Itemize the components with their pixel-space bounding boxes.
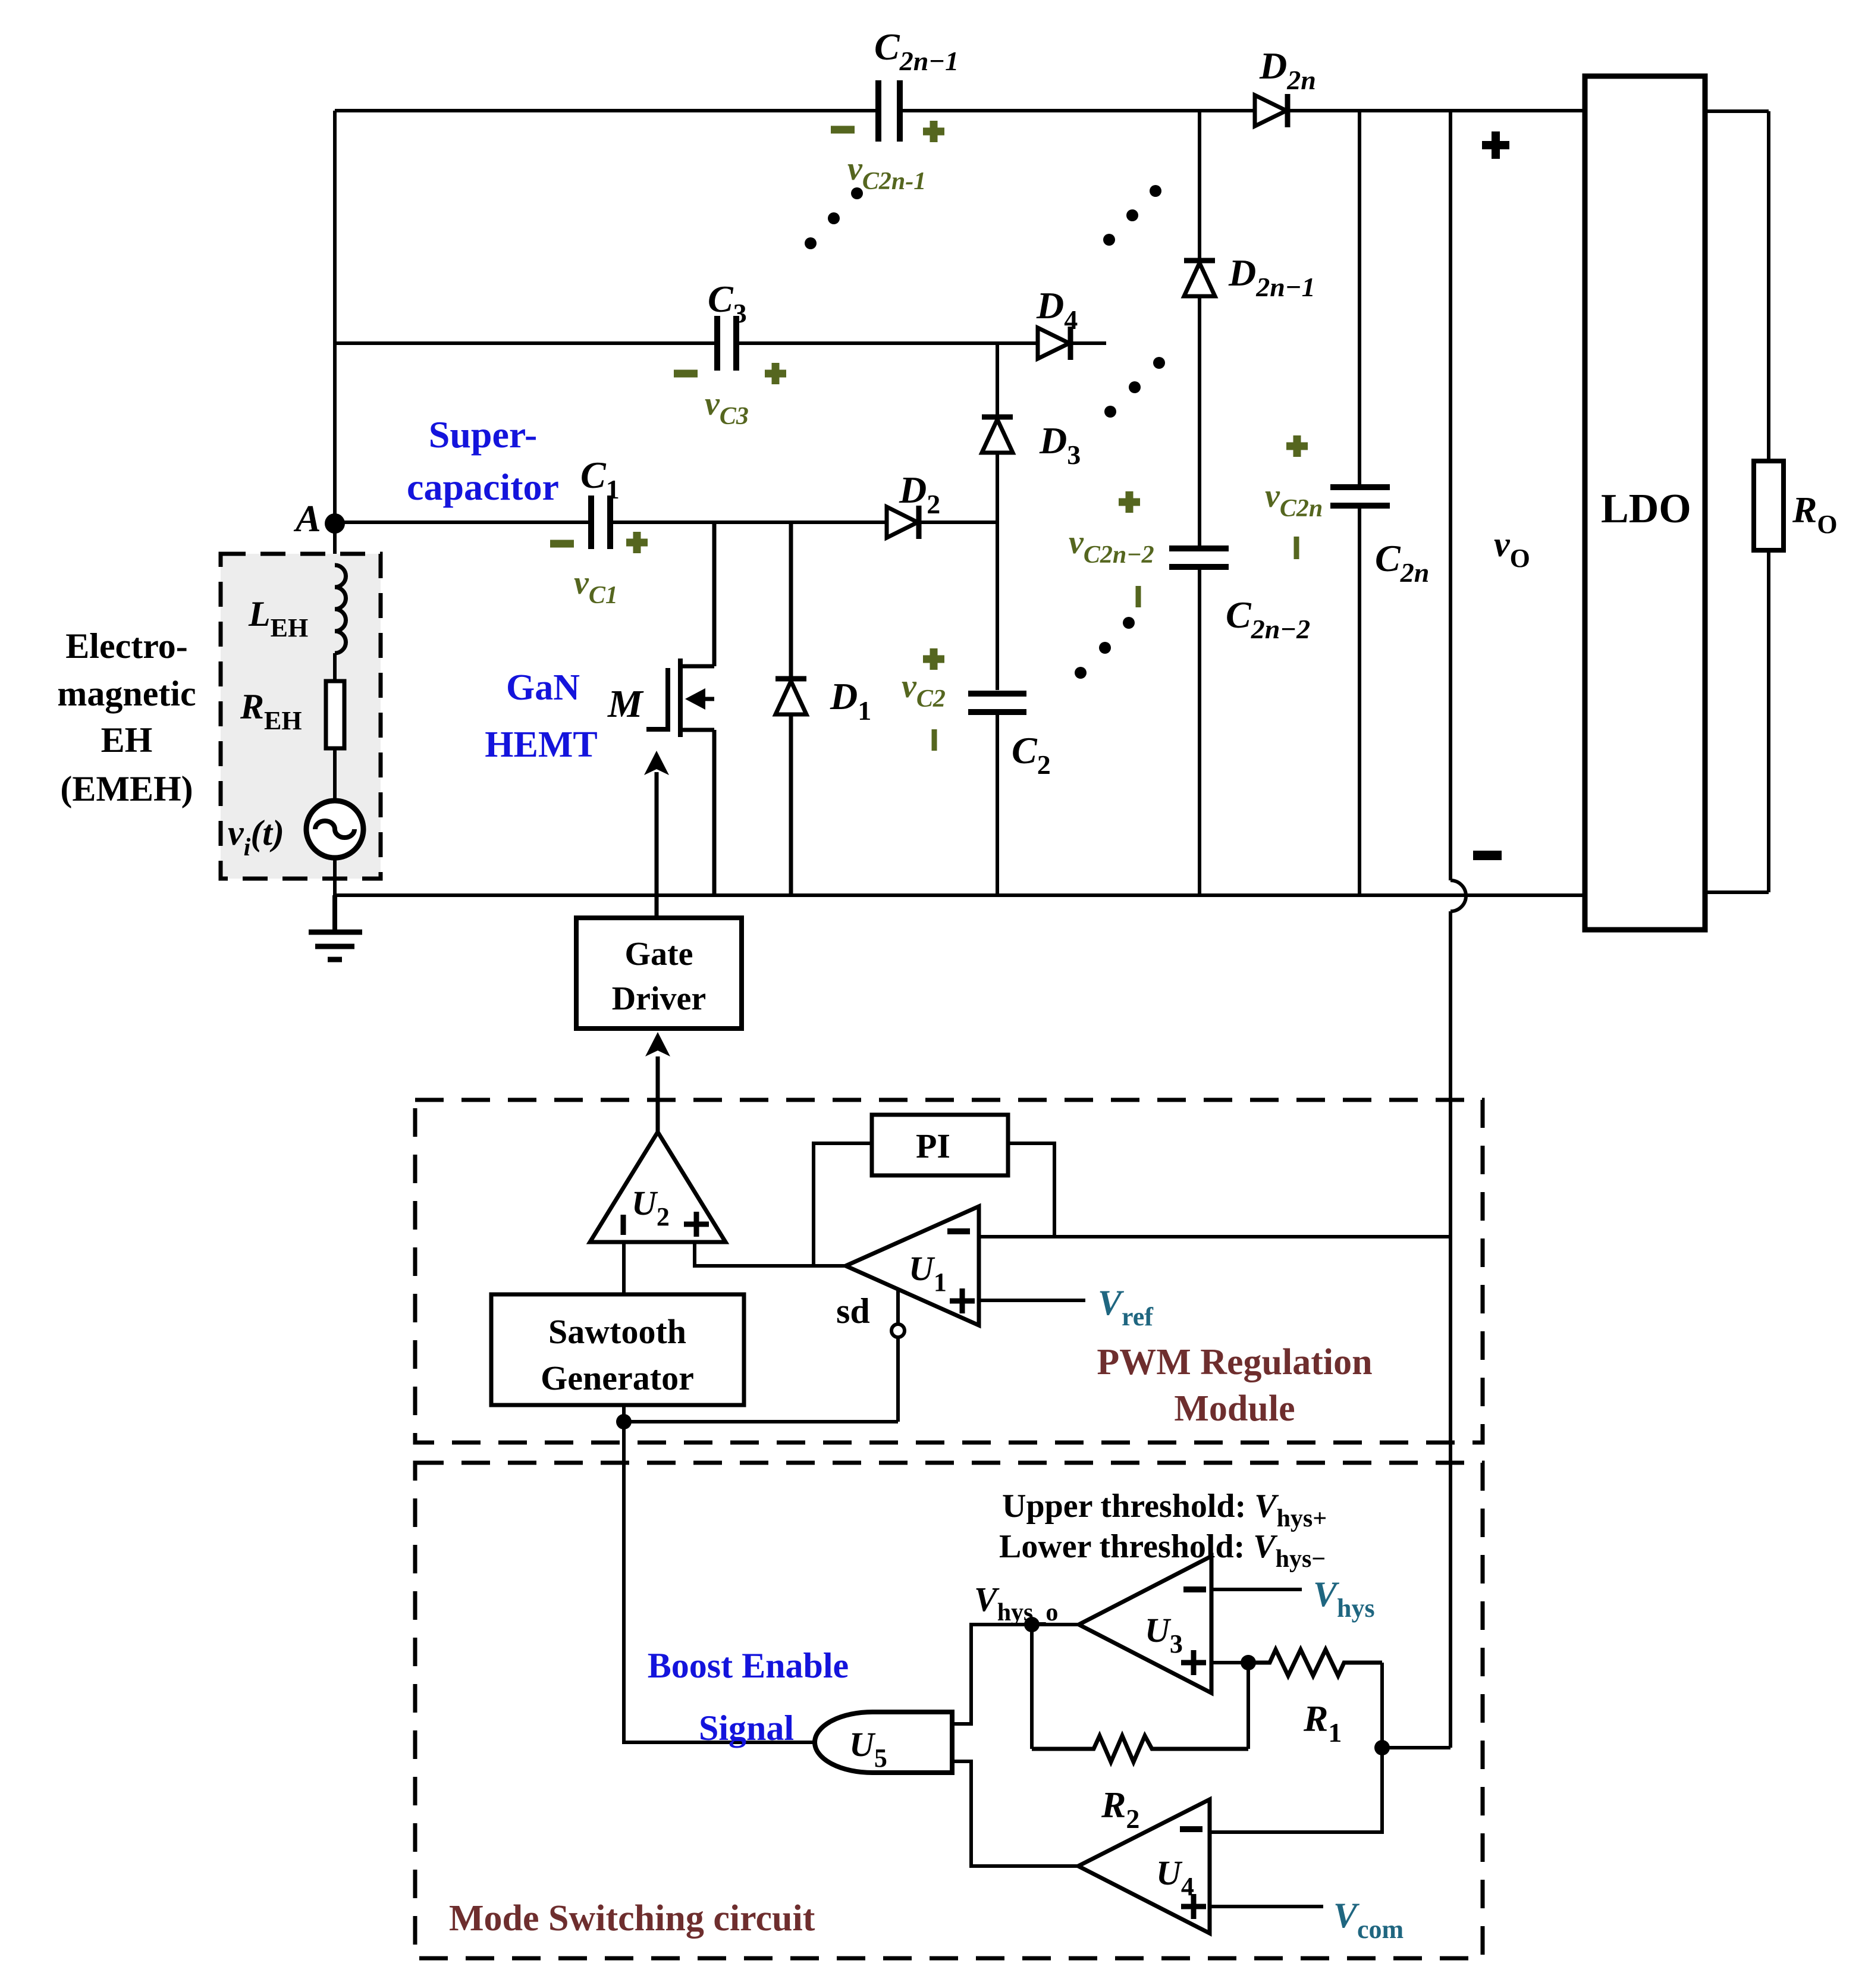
wire after D4	[1072, 341, 1106, 345]
capacitor C3	[717, 316, 736, 371]
label vO plus	[1482, 131, 1509, 159]
ellipsis dots group 2	[1103, 185, 1161, 246]
node U3 plus junction	[1241, 1655, 1256, 1670]
Mode Switching dashed box	[415, 1463, 1483, 1958]
wire R1 node down to U4	[1210, 1748, 1382, 1832]
svg-text:Gate: Gate	[624, 936, 693, 973]
wire C1 row right	[610, 520, 887, 524]
wire column D3-C2	[996, 343, 999, 415]
op-amp U3	[1079, 1556, 1211, 1693]
Sawtooth Generator box	[491, 1294, 744, 1405]
wire U5 lower input stub	[952, 1761, 1078, 1866]
wire U3 plus input	[1211, 1661, 1248, 1664]
wire U3 output to U5	[952, 1625, 1079, 1724]
wire U2 minus input	[622, 1242, 626, 1294]
wire sawtooth bottom junction	[622, 1405, 626, 1422]
diode D2	[887, 506, 919, 539]
svg-text:Super-: Super-	[429, 413, 538, 456]
label C2n-2	[1069, 491, 1310, 644]
wire Vhys_o down to R2	[1030, 1625, 1034, 1749]
resistor R1	[1248, 1650, 1382, 1676]
svg-text:Driver: Driver	[612, 980, 707, 1017]
wire top rail right	[1288, 109, 1585, 112]
diode D2n	[1255, 94, 1288, 127]
LDO U-block	[1585, 76, 1705, 930]
label C2n	[1265, 435, 1429, 588]
wire C3 row left	[335, 341, 717, 345]
label PWM Regulation Module	[1097, 1342, 1372, 1429]
label Electro-magnetic EH (EMEH)	[57, 626, 196, 808]
label vO minus	[1473, 851, 1502, 860]
wire R1 corner down	[1380, 1663, 1384, 1748]
svg-text:M: M	[607, 682, 644, 726]
wire R2 right up to plus node	[1247, 1663, 1250, 1749]
wire Ro column	[1767, 111, 1770, 461]
label C1	[550, 454, 648, 609]
svg-text:EH: EH	[101, 720, 153, 760]
svg-text:(EMEH): (EMEH)	[60, 769, 193, 808]
ground	[309, 895, 362, 959]
diode D3	[982, 417, 1013, 453]
wire U4 plus input	[1210, 1905, 1323, 1908]
resistor REH	[326, 681, 344, 748]
svg-text:GaN: GaN	[506, 667, 580, 708]
wire boost enable vertical	[624, 1422, 815, 1742]
op-amp U2	[590, 1132, 726, 1242]
wire C1 row left	[335, 520, 591, 524]
svg-text:PWM Regulation: PWM Regulation	[1097, 1342, 1372, 1382]
resistor R2	[1032, 1736, 1248, 1762]
PWM Regulation Module dashed box	[415, 1100, 1483, 1443]
AND gate U5	[815, 1712, 952, 1773]
wire U3 minus input	[1211, 1588, 1302, 1591]
label GaN HEMT	[485, 667, 597, 765]
label Super-capacitor	[407, 413, 559, 508]
svg-text:PI: PI	[916, 1127, 950, 1165]
svg-text:magnetic: magnetic	[57, 674, 196, 713]
wire LDO right top	[1705, 109, 1769, 113]
arrow U2 to Gate Driver	[656, 1056, 660, 1132]
node A	[325, 513, 345, 534]
wire PI input tap	[814, 1143, 872, 1266]
svg-text:Module: Module	[1174, 1388, 1295, 1429]
EMEH dashed box	[221, 554, 381, 879]
wire U1 plus input	[979, 1299, 1085, 1302]
label C2n-1	[831, 26, 959, 195]
op-amp U1	[846, 1206, 979, 1325]
capacitor C2n	[1330, 487, 1390, 506]
wire LDO right bottom	[1705, 890, 1769, 894]
svg-text:Signal: Signal	[699, 1708, 794, 1748]
ellipsis dots group 4	[1075, 617, 1135, 679]
svg-text:Mode Switching circuit: Mode Switching circuit	[449, 1898, 815, 1939]
polarity signs vC3	[674, 363, 786, 384]
ellipsis dots group 1	[805, 187, 863, 249]
svg-text:Generator: Generator	[541, 1359, 694, 1397]
wire vO sense column with hop	[1449, 111, 1452, 880]
wire bottom rail	[335, 893, 1585, 897]
capacitor C2	[968, 694, 1026, 712]
diode D4	[1038, 327, 1070, 360]
capacitor C2n-1	[878, 80, 900, 142]
svg-text:A: A	[293, 497, 321, 540]
svg-text:Sawtooth: Sawtooth	[548, 1312, 686, 1351]
wire top rail left	[335, 109, 878, 112]
source vi(t)	[306, 801, 363, 858]
polarity signs vC1	[550, 532, 648, 553]
capacitor C1	[591, 496, 610, 549]
resistor RO	[1754, 461, 1784, 550]
wire column D2n-1 C2n-2	[1198, 111, 1201, 258]
capacitor C2n-2	[1169, 548, 1229, 567]
node R1 junction	[1374, 1740, 1390, 1755]
diode D1	[775, 522, 806, 895]
label C2	[902, 648, 1051, 780]
wire U2 plus input from U1	[695, 1242, 846, 1266]
wire after D2	[921, 520, 997, 524]
polarity signs vC2n	[1286, 435, 1308, 559]
wire top rail mid	[900, 109, 1255, 112]
svg-text:sd: sd	[836, 1291, 870, 1331]
svg-text:capacitor: capacitor	[407, 466, 559, 508]
polarity signs vC2n-1	[831, 121, 944, 142]
wire U1 minus input from vO	[979, 1235, 1450, 1238]
label Boost Enable Signal	[648, 1646, 849, 1748]
svg-text:LDO: LDO	[1601, 486, 1691, 532]
label C3	[674, 278, 786, 430]
svg-text:Electro-: Electro-	[65, 626, 187, 666]
Gate Driver box	[576, 918, 742, 1029]
PI box	[872, 1115, 1008, 1175]
wire U5 upper input stub	[952, 1722, 971, 1726]
node sd	[896, 1289, 900, 1324]
node Vhys_o	[1024, 1617, 1040, 1632]
svg-text:Boost Enable: Boost Enable	[648, 1646, 849, 1685]
wire C3 row right	[736, 341, 1038, 345]
wire column C2n	[1358, 111, 1361, 486]
ellipsis dots group 3	[1104, 357, 1165, 418]
transistor M GaN HEMT	[646, 522, 714, 895]
op-amp U4	[1078, 1799, 1210, 1933]
wire PI output	[1008, 1143, 1054, 1237]
wire left column node A	[333, 111, 337, 554]
gate arrow to M	[655, 772, 659, 918]
polarity signs vC2n-2	[1119, 491, 1140, 607]
wire R1 node to vO line	[1382, 1746, 1450, 1749]
polarity signs vC2	[923, 648, 944, 751]
diode D2n-1	[1184, 261, 1215, 296]
inductor LEH	[335, 565, 346, 653]
svg-text:HEMT: HEMT	[485, 725, 597, 765]
